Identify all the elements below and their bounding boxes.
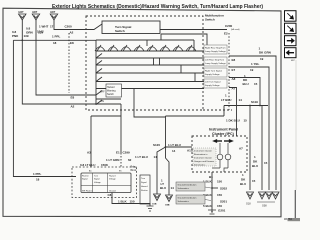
- svg-text:Left Rear Stop/Turn: Left Rear Stop/Turn: [205, 59, 225, 62]
- svg-text:Turn: Turn: [141, 178, 145, 180]
- svg-text:Instrument Panel: Instrument Panel: [209, 128, 238, 132]
- svg-text:Voltage: Voltage: [94, 181, 102, 184]
- svg-text:OFF: OFF: [100, 92, 105, 94]
- svg-text:1 BLK: 1 BLK: [118, 200, 128, 204]
- svg-text:C299: C299: [123, 151, 131, 155]
- svg-text:BLU: BLU: [252, 164, 258, 168]
- svg-text:Signal: Signal: [94, 179, 100, 181]
- svg-text:ORN: ORN: [26, 31, 33, 35]
- svg-text:HOT: HOT: [32, 11, 38, 14]
- svg-text:1 LT GRN: 1 LT GRN: [106, 158, 119, 162]
- svg-text:G201: G201: [218, 209, 226, 213]
- svg-text:E8: E8: [232, 58, 236, 62]
- svg-text:ON: ON: [101, 101, 105, 103]
- svg-text:Warning: Warning: [107, 90, 116, 93]
- svg-text:C200: C200: [65, 25, 73, 29]
- svg-text:Switch: Switch: [115, 29, 125, 33]
- svg-text:4B-7B4: 4B-7B4: [284, 218, 293, 221]
- svg-text:Ground Distribution: Ground Distribution: [178, 197, 198, 200]
- svg-text:139: 139: [24, 34, 29, 38]
- svg-text:0.8 LT BLU: 0.8 LT BLU: [80, 163, 95, 167]
- svg-text:G9B: G9B: [165, 205, 170, 207]
- svg-text:Voltage: Voltage: [109, 178, 117, 181]
- svg-text:Ground Distribution: Ground Distribution: [178, 184, 198, 187]
- svg-text:A7: A7: [239, 147, 243, 151]
- svg-text:14: 14: [171, 186, 175, 190]
- svg-text:Schematics: Schematics: [178, 200, 190, 203]
- svg-text:15: 15: [244, 119, 248, 123]
- svg-text:19: 19: [250, 68, 254, 72]
- svg-text:Turn: Turn: [94, 176, 98, 178]
- svg-text:150: 150: [130, 200, 135, 204]
- svg-text:G18: G18: [246, 203, 251, 206]
- svg-text:Exterior Lights Schematics (Do: Exterior Lights Schematics (Domestic)/Ha…: [52, 4, 263, 10]
- svg-text:A2: A2: [70, 31, 74, 35]
- svg-text:HOT: HOT: [50, 11, 56, 14]
- svg-text:Schematics: Schematics: [194, 164, 206, 167]
- svg-text:Instrument Cluster: Instrument Cluster: [194, 157, 212, 160]
- svg-text:150: 150: [217, 180, 222, 184]
- svg-text:Flasher: Flasher: [82, 176, 89, 178]
- svg-text:Hazard: Hazard: [107, 86, 115, 89]
- svg-text:Hazard: Hazard: [109, 176, 115, 178]
- svg-text:18: 18: [36, 178, 40, 182]
- svg-text:A2: A2: [71, 105, 75, 109]
- svg-text:1 WHT: 1 WHT: [39, 25, 49, 29]
- svg-text:C8: C8: [108, 193, 112, 197]
- svg-text:A3: A3: [87, 151, 91, 155]
- svg-text:WR Flasher: WR Flasher: [82, 191, 93, 193]
- svg-text:A10: A10: [187, 149, 193, 153]
- svg-text:G08: G08: [262, 205, 267, 208]
- svg-text:E2: E2: [224, 32, 228, 36]
- svg-text:G1B: G1B: [152, 204, 157, 206]
- svg-text:BLU: BLU: [160, 186, 166, 190]
- svg-text:S202: S202: [220, 187, 227, 191]
- svg-text:E7: E7: [232, 68, 236, 72]
- svg-text:Signal: Signal: [141, 182, 147, 184]
- svg-text:BLU: BLU: [240, 182, 246, 186]
- svg-text:Lamp Supply Voltage: Lamp Supply Voltage: [205, 50, 226, 53]
- svg-text:Supply Voltage: Supply Voltage: [205, 84, 220, 87]
- svg-text:Right Rear Stop/Turn: Right Rear Stop/Turn: [205, 47, 226, 50]
- svg-text:Signal: Signal: [82, 179, 88, 181]
- svg-text:LT BLU: LT BLU: [221, 98, 231, 102]
- svg-text:15: 15: [254, 82, 258, 86]
- svg-text:150: 150: [217, 204, 222, 208]
- svg-text:(blk end): (blk end): [231, 29, 240, 31]
- svg-text:1 YEL: 1 YEL: [251, 62, 259, 66]
- svg-text:15: 15: [252, 179, 256, 183]
- svg-text:Flasher: Flasher: [141, 190, 148, 192]
- svg-text:Instrument Cluster: Instrument Cluster: [194, 150, 212, 153]
- svg-text:B1: B1: [209, 175, 213, 179]
- svg-text:1 LT BLU: 1 LT BLU: [135, 155, 148, 159]
- svg-text:BLU: BLU: [243, 82, 249, 86]
- svg-text:HOT: HOT: [19, 11, 25, 14]
- svg-text:14: 14: [172, 149, 176, 153]
- svg-text:Hazard: Hazard: [141, 186, 147, 188]
- svg-text:S120: S120: [153, 143, 160, 147]
- svg-text:Gauges and Dimmer: Gauges and Dimmer: [194, 160, 214, 163]
- svg-text:Relay: Relay: [131, 167, 138, 169]
- svg-text:E8: E8: [71, 96, 75, 100]
- svg-text:14: 14: [239, 98, 243, 102]
- svg-text:Illumination in: Illumination in: [194, 153, 208, 156]
- svg-text:Cluster (IPC): Cluster (IPC): [212, 132, 235, 136]
- svg-text:S201: S201: [220, 200, 227, 204]
- svg-text:Supply Voltage: Supply Voltage: [205, 73, 220, 76]
- svg-text:19: 19: [260, 57, 264, 61]
- svg-text:1342: 1342: [37, 30, 44, 34]
- svg-text:Switch: Switch: [107, 93, 114, 96]
- svg-text:15: 15: [264, 161, 268, 165]
- svg-text:1508: 1508: [101, 163, 108, 167]
- svg-text:1 LT BLU: 1 LT BLU: [168, 143, 181, 147]
- svg-text:18: 18: [53, 41, 57, 45]
- svg-text:Left Turn Signal: Left Turn Signal: [205, 81, 221, 84]
- svg-text:5 BLK: 5 BLK: [203, 204, 213, 208]
- svg-text:E1: E1: [116, 151, 120, 155]
- svg-text:E8: E8: [70, 41, 74, 45]
- svg-text:1 PPL: 1 PPL: [33, 172, 42, 176]
- svg-text:1 PPL: 1 PPL: [52, 35, 61, 39]
- svg-text:14: 14: [154, 155, 158, 159]
- svg-text:150: 150: [217, 193, 222, 197]
- svg-text:S119: S119: [251, 100, 258, 104]
- svg-text:1 DK BLU: 1 DK BLU: [226, 119, 240, 123]
- svg-text:Lamp Supply Voltage: Lamp Supply Voltage: [205, 62, 226, 65]
- svg-text:Switch: Switch: [205, 18, 215, 22]
- svg-text:62: 62: [128, 158, 132, 162]
- svg-text:Right Turn Signal: Right Turn Signal: [205, 70, 222, 73]
- svg-text:C200: C200: [225, 24, 233, 28]
- svg-text:17: 17: [50, 25, 54, 29]
- svg-text:Block: Block: [131, 170, 137, 172]
- svg-text:DK GRN: DK GRN: [259, 51, 271, 55]
- svg-text:PNK: PNK: [12, 34, 19, 38]
- svg-text:Schematics: Schematics: [178, 187, 190, 190]
